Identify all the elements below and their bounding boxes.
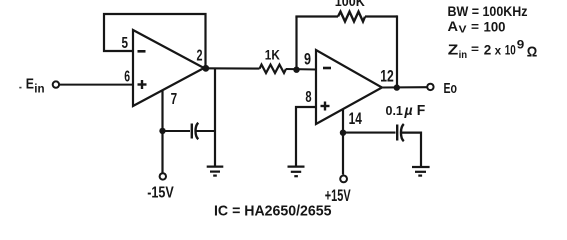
- node pin 7: [159, 128, 165, 134]
- wire U1 output branch down to ground: [214, 68, 216, 166]
- op-amp U1: [133, 30, 204, 106]
- svg-text:=: =: [471, 42, 479, 56]
- op-amp U2 non-inverting input sign: [321, 102, 330, 111]
- wire U1 feedback loop pin2 to pin5: [104, 14, 206, 68]
- svg-text:Ω: Ω: [527, 43, 538, 60]
- svg-text:-15V: -15V: [147, 184, 174, 201]
- terminal Eo: [427, 84, 433, 90]
- op-amp U1 non-inverting input sign: [138, 80, 147, 89]
- ground center: [207, 167, 224, 176]
- svg-text:100: 100: [484, 18, 506, 34]
- svg-text:2: 2: [484, 41, 492, 57]
- wire pin 14 down: [342, 109, 344, 175]
- wire 1K to node 9: [286, 68, 316, 71]
- ground pin 8: [288, 167, 305, 177]
- wire input to U1 pin 6: [59, 84, 133, 86]
- svg-text:A: A: [448, 19, 459, 34]
- wire feedback top left segment: [295, 15, 338, 17]
- ground C2: [412, 167, 430, 176]
- svg-text:0.1: 0.1: [386, 104, 403, 118]
- svg-text:=: =: [471, 19, 479, 34]
- resistor R2 100K: [338, 12, 365, 22]
- input terminal E_in: [53, 81, 59, 87]
- svg-text:Eo: Eo: [444, 81, 458, 97]
- svg-text:8: 8: [305, 89, 311, 106]
- svg-text:+15V: +15V: [325, 187, 351, 205]
- scan speck: [19, 87, 21, 89]
- wire feedback down to output node: [396, 15, 398, 88]
- svg-text:5: 5: [122, 35, 129, 52]
- op-amp U2: [316, 50, 382, 124]
- svg-text:2: 2: [197, 48, 203, 65]
- svg-text:in: in: [34, 84, 44, 96]
- wire C1 to ground line: [197, 130, 216, 132]
- wire U2 output to Eo: [382, 86, 427, 88]
- wire pin 7 down: [161, 91, 163, 173]
- svg-text:F: F: [417, 103, 426, 119]
- svg-text:E: E: [26, 75, 34, 92]
- node U1 output pin 2: [202, 65, 209, 72]
- resistor R1 1K: [260, 65, 287, 73]
- svg-text:in: in: [459, 49, 468, 61]
- svg-text:µ: µ: [404, 102, 413, 118]
- wire feedback top right segment: [365, 15, 397, 17]
- svg-text:10: 10: [505, 41, 516, 57]
- svg-text:IC = HA2650/2655: IC = HA2650/2655: [214, 204, 332, 220]
- svg-text:100K: 100K: [335, 0, 365, 9]
- node pin 12 output: [394, 84, 400, 90]
- wire node14 to C2: [343, 132, 396, 134]
- node junction pin 9: [293, 67, 299, 73]
- wire node7 to C1: [163, 130, 191, 132]
- capacitor C1: [192, 123, 199, 139]
- wire pin 8 to ground: [296, 107, 316, 167]
- svg-text:Z: Z: [448, 42, 459, 59]
- svg-text:9: 9: [304, 50, 311, 68]
- op-amp U1 inverting input sign: [138, 50, 146, 53]
- svg-text:1K: 1K: [265, 46, 280, 62]
- svg-text:x: x: [495, 43, 502, 57]
- op-amp U2 inverting input sign: [323, 67, 331, 70]
- node pin 14: [340, 130, 346, 136]
- terminal -15V: [160, 173, 166, 179]
- svg-text:14: 14: [349, 110, 363, 128]
- wire node9 up to 100K feedback: [295, 17, 297, 70]
- svg-text:7: 7: [171, 91, 178, 108]
- svg-text:V: V: [459, 25, 467, 36]
- capacitor C2 0.1uF: [397, 124, 404, 141]
- svg-text:9: 9: [517, 39, 525, 51]
- wire U1 output to 1K: [204, 67, 260, 69]
- wire C2 to ground: [402, 133, 421, 167]
- svg-text:6: 6: [124, 69, 130, 86]
- svg-text:BW = 100KHz: BW = 100KHz: [448, 3, 528, 19]
- svg-text:12: 12: [380, 67, 394, 85]
- terminal +15V: [340, 176, 347, 183]
